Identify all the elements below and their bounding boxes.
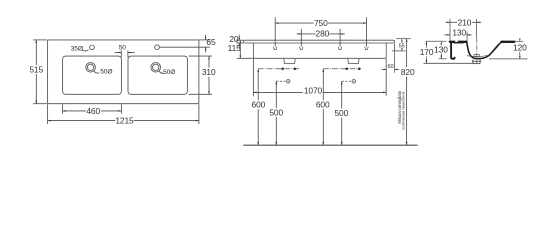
front view rim	[244, 40, 395, 43]
dim 500 left line	[275, 81, 277, 108]
tap hole cup 4	[365, 47, 368, 50]
drain cup front left	[284, 58, 295, 63]
dim 500 right line	[341, 81, 343, 108]
svg-text:500: 500	[334, 108, 348, 118]
supply circle dots	[288, 81, 289, 82]
drain cup front right	[348, 58, 359, 63]
side profile deck front	[450, 41, 514, 59]
dim 460 arrows	[63, 110, 66, 112]
dim 120 top ext tick	[516, 40, 524, 42]
svg-text:120: 120	[513, 43, 527, 53]
side view 170-130 top ext	[426, 40, 447, 42]
leader 50dia left	[94, 71, 99, 73]
centerline 600 right	[323, 68, 361, 70]
svg-text:170: 170	[420, 47, 434, 57]
dim 750 line	[275, 22, 313, 24]
dim 750 ext lines	[274, 17, 276, 46]
dim 50 gap ext lines	[120, 50, 122, 57]
centerline 600 left	[258, 68, 299, 70]
svg-text:35Ø: 35Ø	[71, 45, 83, 52]
svg-text:65: 65	[206, 37, 216, 47]
supply circle right	[352, 80, 356, 84]
dim 50 arrow lines	[115, 52, 122, 54]
dim 130 horizontal line	[444, 34, 450, 36]
dim 1070 ext lines	[252, 58, 254, 96]
dim 310 ext lines	[189, 55, 212, 57]
svg-text:130: 130	[434, 44, 448, 54]
dim 130 vertical bottom ext	[439, 58, 447, 60]
dim 170 arrows	[426, 41, 428, 44]
dim 20 arrows	[239, 38, 241, 41]
dim 120 arrows	[519, 39, 521, 42]
dim 120 line	[519, 52, 521, 59]
basin left	[63, 56, 122, 94]
front face and foot	[451, 41, 454, 59]
dim 115 arrows	[240, 40, 242, 43]
top view outer rect	[48, 40, 199, 104]
dim 130 horizontal arrows	[447, 34, 450, 36]
dashed leader 500 left	[276, 80, 286, 82]
svg-text:500: 500	[269, 107, 283, 117]
dim 20 line	[238, 35, 240, 40]
waste pipe	[472, 59, 474, 63]
dim 210 line	[445, 21, 457, 23]
dim 280 arrows	[299, 33, 302, 35]
svg-text:60: 60	[387, 64, 393, 70]
dim 750 arrows	[275, 22, 278, 24]
dim 130 vertical arrows	[441, 42, 443, 45]
dim 1215 arrows	[48, 120, 51, 122]
svg-text:55: 55	[399, 43, 405, 49]
side bottom line left (170 level)	[424, 62, 474, 64]
side bottom line right (120 level)	[489, 58, 528, 60]
dim 60 arrows	[384, 69, 387, 71]
dim 130 right ext	[466, 32, 468, 41]
dim 820 line	[406, 39, 408, 67]
svg-text:1215: 1215	[115, 116, 134, 126]
dim 460 ext lines	[62, 104, 64, 114]
dim 60 arrow lines	[382, 68, 387, 70]
dim 210 arrows	[447, 22, 450, 24]
dim 55 bottom ext	[392, 50, 406, 52]
dim 1215 ext lines	[47, 104, 49, 124]
waste plug	[474, 55, 479, 57]
dim 1215 line	[48, 120, 116, 122]
dim 115 ext line	[237, 57, 253, 59]
svg-text:recommended measurement: recommended measurement	[402, 92, 406, 131]
arrowheads	[35, 22, 520, 146]
dim 515 ext lines	[33, 39, 47, 41]
svg-text:1070: 1070	[304, 85, 323, 95]
dim 1070 line	[253, 91, 302, 93]
dim 515 line	[35, 40, 37, 65]
dim 50 arrows	[119, 52, 122, 54]
dim 600 right line	[322, 69, 324, 100]
dim 820 top ext	[396, 38, 411, 40]
dim 460 line	[63, 110, 86, 112]
dim 170 line	[425, 41, 427, 47]
dim 515 arrows	[35, 40, 37, 43]
faucet hole right	[155, 45, 160, 50]
cavity ceiling	[454, 42, 464, 44]
svg-text:750: 750	[314, 18, 328, 28]
drain left	[86, 63, 96, 73]
dim 60 ext line	[394, 44, 396, 73]
dim 310 line	[208, 56, 210, 68]
dim 500 left arrows	[275, 81, 277, 84]
supply dots	[281, 67, 360, 81]
drain right	[151, 63, 161, 73]
dashed leader 500 right	[342, 80, 352, 82]
ext line 210-130 left	[449, 19, 451, 41]
dim 500 right arrows	[341, 81, 343, 84]
bowl inner bottom	[467, 55, 488, 56]
leader 35dia	[82, 50, 89, 51]
svg-text:50Ø: 50Ø	[163, 69, 175, 76]
tap hole cup 2	[300, 47, 303, 50]
svg-text:460: 460	[86, 106, 100, 116]
dim 820 arrows	[406, 39, 408, 42]
floor line	[243, 144, 417, 146]
tap hole cup 3	[338, 47, 341, 50]
dim 600 left line	[257, 69, 259, 100]
front view body	[253, 43, 386, 58]
leader faucet right to 65 dim	[159, 46, 210, 48]
bowl inner back wall	[489, 43, 500, 55]
svg-text:210: 210	[458, 17, 472, 27]
svg-text:130: 130	[452, 28, 466, 38]
svg-text:280: 280	[316, 29, 330, 39]
dim 55 arrows	[401, 39, 403, 42]
svg-text:600: 600	[316, 100, 330, 110]
dim 1070 arrows	[253, 92, 256, 94]
svg-text:50: 50	[119, 44, 127, 51]
svg-text:310: 310	[202, 67, 216, 77]
dim 20 ext lines	[236, 39, 243, 41]
svg-text:600: 600	[252, 100, 266, 110]
svg-text:115: 115	[228, 43, 241, 53]
side centerline	[476, 39, 478, 64]
dim 65 top ext	[199, 39, 211, 41]
bowl back wall	[481, 41, 503, 58]
dim 280 ext lines	[300, 29, 302, 47]
dim 55 line	[401, 39, 403, 43]
dim 130 vertical line	[440, 41, 442, 45]
deck back	[502, 41, 515, 43]
basin right	[128, 56, 187, 94]
svg-text:50Ø: 50Ø	[100, 69, 112, 76]
overflow slot	[455, 40, 458, 42]
svg-text:515: 515	[29, 64, 43, 74]
faucet hole left	[90, 45, 95, 50]
dim 600 right arrows	[322, 69, 324, 72]
dim 600 left arrows	[257, 69, 259, 72]
dim 310 arrows	[208, 56, 210, 59]
supply circle left	[286, 80, 290, 84]
dim 65 line	[205, 35, 207, 40]
tap hole cup 1	[274, 47, 277, 50]
dim 280 line	[297, 33, 302, 35]
bowl front wall	[467, 41, 481, 59]
svg-text:820: 820	[401, 67, 415, 77]
dim 65 arrows	[205, 37, 207, 40]
dim 115 line	[239, 40, 241, 58]
dim 210 right ext	[476, 19, 478, 39]
leader 50dia right	[159, 71, 164, 73]
